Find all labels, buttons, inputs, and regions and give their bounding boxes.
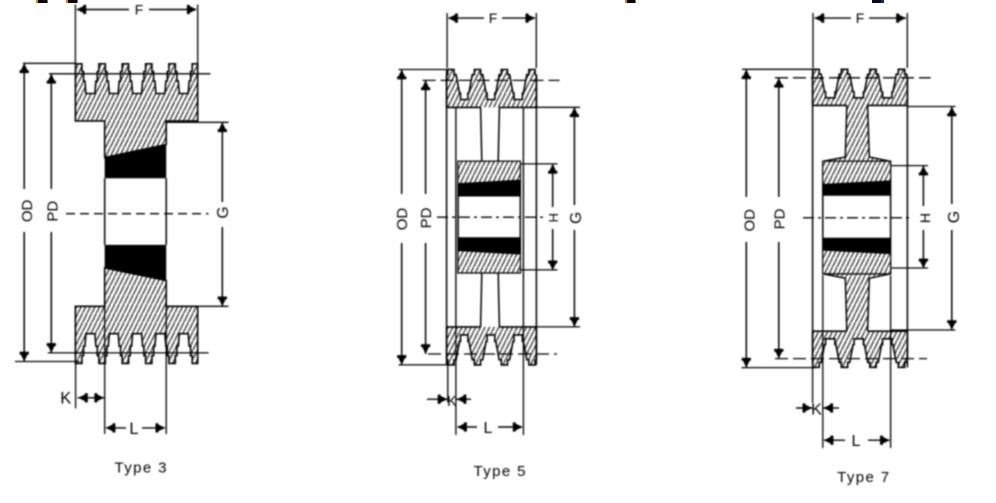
pulley 3 centerline xyxy=(803,217,912,219)
svg-text:F: F xyxy=(489,10,498,26)
dim OD pulley 1 xyxy=(15,63,80,361)
pulley 2 bushing upper (black) xyxy=(458,180,520,196)
svg-text:OD: OD xyxy=(394,208,411,231)
svg-text:H: H xyxy=(917,213,933,223)
dim OD pulley 3 xyxy=(741,69,816,367)
svg-text:PD: PD xyxy=(418,207,435,228)
svg-text:H: H xyxy=(546,213,561,222)
pulley 2 rim side lines xyxy=(447,70,537,365)
dim PD pulley 1 xyxy=(45,74,211,353)
dim H pulley 2 xyxy=(521,164,561,270)
dim L pulley 1 xyxy=(105,306,167,438)
pulley 2 lower web xyxy=(481,273,500,327)
pulley 3 rim side lines xyxy=(813,70,908,368)
svg-text:PD: PD xyxy=(771,208,788,229)
svg-text:F: F xyxy=(856,10,865,26)
pulley 2 hub outline xyxy=(458,161,520,273)
label Type 3 xyxy=(114,460,167,477)
dim G pulley 3 xyxy=(891,107,963,331)
pulley 1 bore xyxy=(105,178,167,245)
dim G pulley 2 xyxy=(523,107,585,327)
pulley 3 upper web (hatched) xyxy=(823,105,891,161)
svg-text:OD: OD xyxy=(741,209,758,232)
pulley 2 bushing lower (black) xyxy=(458,237,520,254)
pulley 1 taper bushing upper (black wedge) xyxy=(105,145,167,179)
dim L pulley 3 xyxy=(824,275,891,450)
cropped text artifact top-middle xyxy=(625,0,636,3)
dim K pulley 3 xyxy=(796,275,839,448)
svg-text:G: G xyxy=(946,211,963,223)
pulley 1 centerline xyxy=(66,213,209,215)
pulley 3 hub outline xyxy=(823,161,891,273)
dim F pulley 2 xyxy=(447,10,536,68)
svg-text:Type 3: Type 3 xyxy=(114,460,167,477)
svg-text:L: L xyxy=(484,420,493,437)
dim F pulley 3 xyxy=(813,10,907,68)
label Type 5 xyxy=(473,463,526,480)
pulley 3 top rim (hatched) xyxy=(813,69,908,105)
svg-text:K: K xyxy=(60,390,71,408)
svg-text:PD: PD xyxy=(45,201,62,222)
dim PD pulley 3 xyxy=(771,78,930,359)
dim K pulley 2 xyxy=(427,327,471,435)
dim G pulley 1 xyxy=(166,122,232,306)
svg-text:Type 7: Type 7 xyxy=(837,469,890,486)
svg-text:OD: OD xyxy=(19,199,36,222)
svg-text:K: K xyxy=(447,394,457,410)
pulley 3 hub hatch lower xyxy=(823,250,891,274)
svg-text:K: K xyxy=(811,402,822,419)
pulley 3 bushing upper (black) xyxy=(823,181,891,196)
pulley 2 inner rim lines xyxy=(456,107,524,327)
svg-text:Type 5: Type 5 xyxy=(473,463,526,480)
cropped text artifact top-left 1 xyxy=(36,0,48,3)
dim OD pulley 2 xyxy=(394,70,454,365)
dim H pulley 3 xyxy=(891,166,933,269)
pulley 2 hub hatch upper xyxy=(458,161,520,183)
pulley 3 bottom rim (hatched) xyxy=(813,331,908,367)
svg-text:L: L xyxy=(852,433,861,450)
dim F pulley 1 xyxy=(75,2,197,64)
cropped text artifact top-left 2 xyxy=(66,0,78,3)
svg-text:G: G xyxy=(215,206,232,218)
svg-text:L: L xyxy=(129,420,138,438)
label Type 7 xyxy=(837,469,890,486)
pulley 2 bottom rim (hatched) xyxy=(447,327,537,365)
pulley 3 bushing lower (black) xyxy=(823,238,891,254)
pulley 3 hub hatch upper xyxy=(823,161,891,184)
svg-text:G: G xyxy=(568,212,585,224)
pulley 2 top rim (hatched) xyxy=(447,70,537,108)
pulley 3 lower web (hatched) xyxy=(823,274,891,331)
pulley 1 taper bushing lower (black wedge) xyxy=(105,245,167,281)
pulley 2 upper web xyxy=(481,107,500,161)
svg-text:F: F xyxy=(135,2,144,18)
cropped text artifact top-right xyxy=(872,0,884,3)
pulley 1 rim and hub section (hatched) xyxy=(75,64,197,364)
dim K pulley 1 xyxy=(60,363,104,408)
dim PD pulley 2 xyxy=(418,80,560,354)
pulley 2 hub hatch lower xyxy=(458,251,520,273)
dim L pulley 2 xyxy=(457,327,523,437)
pulley 2 centerline xyxy=(437,216,546,218)
